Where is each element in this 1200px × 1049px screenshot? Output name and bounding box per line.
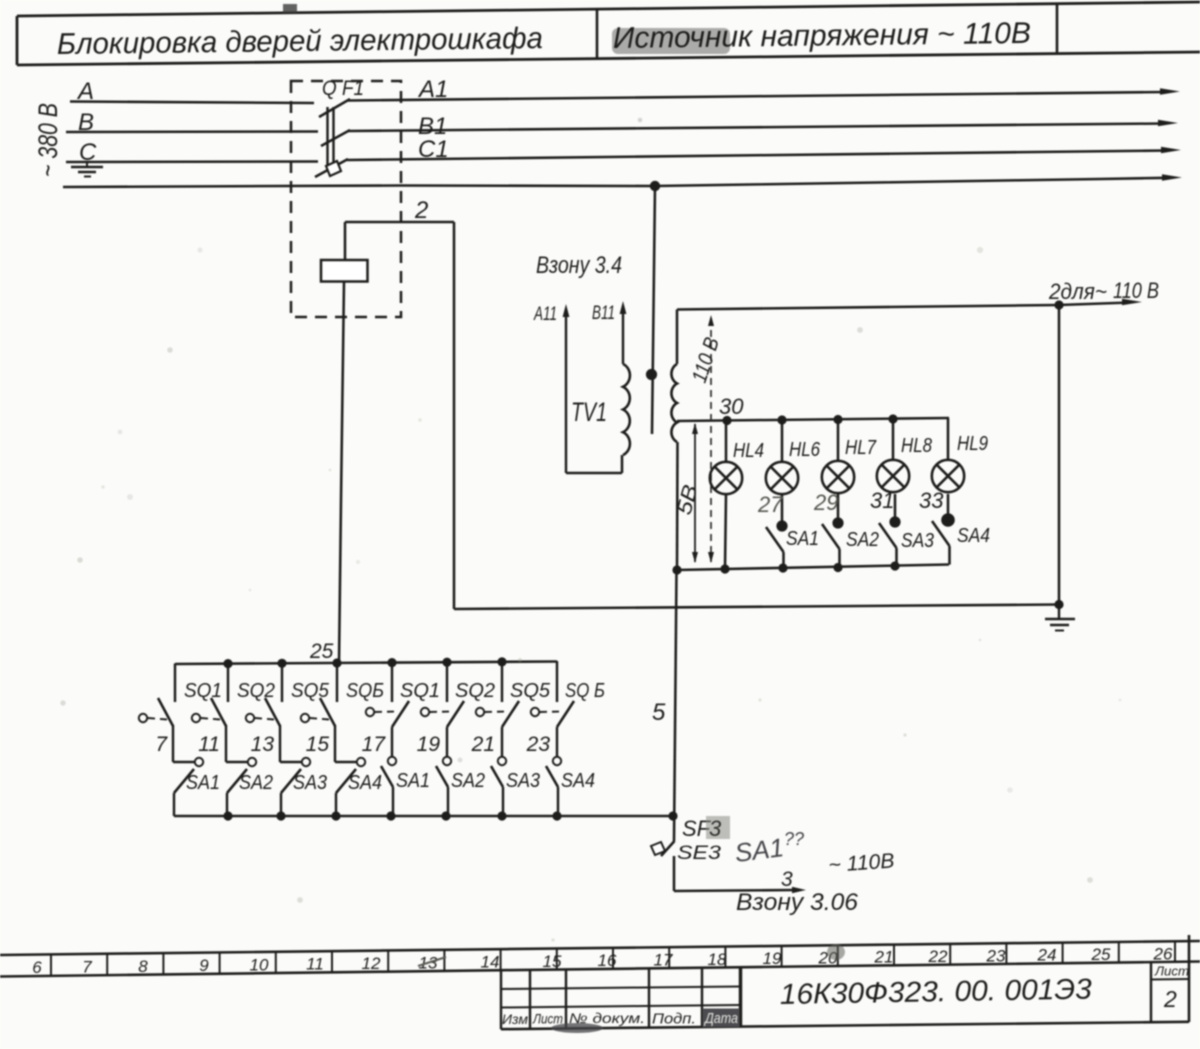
phase line A (left of QF1) xyxy=(70,102,314,104)
svg-text:Дата: Дата xyxy=(703,1010,738,1027)
smudge under rev row xyxy=(551,1023,603,1033)
node dot 29 xyxy=(832,517,843,528)
door switch SA3 pivot circle xyxy=(498,757,506,765)
TV1 secondary winding xyxy=(671,364,677,442)
limit switch SQ1 blade xyxy=(158,698,173,726)
phase line C1 (right of QF1) xyxy=(347,151,1167,161)
svg-text:Лист: Лист xyxy=(532,1011,563,1027)
svg-text:SA1: SA1 xyxy=(786,528,819,550)
correction smudge over Источник xyxy=(612,28,730,54)
door switch SA2 lower wire xyxy=(226,793,228,816)
svg-text:SA1: SA1 xyxy=(733,832,785,868)
svg-text:A1: A1 xyxy=(417,76,448,103)
limit switch SQ5 actuator dashes xyxy=(485,711,508,714)
limit switch SQ2 actuator dashes xyxy=(201,718,220,720)
wire 2 top horizontal to TV1 secondary xyxy=(677,305,1059,310)
door switch SA4 blade xyxy=(546,766,558,787)
svg-text:23: 23 xyxy=(986,946,1006,965)
node dot top bus x=502 xyxy=(497,657,506,666)
svg-text:SA2: SA2 xyxy=(451,770,485,792)
door switch SA1 pivot circle xyxy=(388,757,396,765)
node dot on N line at x=655 xyxy=(650,181,660,191)
svg-text:26: 26 xyxy=(1153,944,1173,963)
limit switch SQБ actuator dashes xyxy=(310,718,329,720)
node dot 33 xyxy=(941,513,955,527)
door switch SA2 pivot circle xyxy=(248,758,256,766)
arrow C1 line xyxy=(1161,147,1181,153)
wire top stem HL6 xyxy=(781,420,784,462)
dimension arrow 5В xyxy=(694,424,696,562)
switch SA4 (lamp circuit) blade xyxy=(932,521,950,546)
svg-text:11: 11 xyxy=(198,733,220,756)
svg-text:SA3: SA3 xyxy=(293,772,327,794)
Лист cell rule xyxy=(1151,978,1189,981)
svg-text:Подп.: Подп. xyxy=(652,1011,696,1028)
wire top stem HL7 xyxy=(837,420,840,462)
lamp HL9 xyxy=(932,460,964,492)
revision table verticals xyxy=(500,970,502,1029)
limit switch SQ1 actuator dashes xyxy=(148,718,167,720)
svg-text:30: 30 xyxy=(719,394,744,419)
wire 5 below SE3 xyxy=(673,856,676,891)
limit switch SQ2 actuator dashes xyxy=(430,711,453,714)
svg-text:Взону 3.06: Взону 3.06 xyxy=(736,889,859,916)
svg-text:7: 7 xyxy=(82,957,92,976)
node dot bottom bus x=228 xyxy=(223,811,232,820)
wire top stem HL8 xyxy=(892,419,895,460)
svg-text:21: 21 xyxy=(874,948,894,967)
wire SA4 lower stem xyxy=(948,546,951,565)
sheet frame right edge xyxy=(1188,935,1191,1022)
limit switch SQ5 actuator dashes xyxy=(255,718,274,720)
node dot top bus x=392 xyxy=(387,658,396,667)
neutral line N (full width) xyxy=(63,178,1168,187)
door switch SA4 pivot circle xyxy=(357,758,365,766)
svg-text:SA1: SA1 xyxy=(186,772,220,794)
emergency switch SE3 flag xyxy=(651,842,665,855)
stamp cell verticals xyxy=(740,967,742,1027)
limit switch SQ2 actuator circle xyxy=(421,708,429,716)
phase line A1 (right of QF1) xyxy=(348,92,1166,101)
door switch SA3 jog xyxy=(280,761,302,763)
wire node 19 segment xyxy=(446,727,448,757)
node dot 31 xyxy=(889,516,900,527)
door switch SA1 blade xyxy=(381,766,393,787)
breaker QF1 mechanical tie bar xyxy=(326,107,328,167)
svg-text:Лист: Лист xyxy=(1154,964,1189,979)
svg-text:25: 25 xyxy=(309,640,334,663)
wire top stem HL4 xyxy=(725,421,728,463)
wire SA2 upper stem xyxy=(837,494,840,523)
TV1 primary winding xyxy=(623,364,630,455)
svg-text:33: 33 xyxy=(919,488,944,513)
svg-text:??: ?? xyxy=(784,829,804,849)
svg-text:12: 12 xyxy=(362,954,381,973)
node dot bottom bus x=446 xyxy=(441,811,450,820)
stray mark top edge xyxy=(283,4,297,13)
svg-text:Q F1: Q F1 xyxy=(322,77,364,100)
wire 2 exit arrow to 110V load xyxy=(1059,303,1130,306)
wire A11 with up arrow xyxy=(565,316,567,473)
svg-text:31: 31 xyxy=(870,488,894,513)
door switch SA3 pivot circle xyxy=(302,758,310,766)
switch SA3 (lamp circuit) blade xyxy=(879,523,897,548)
svg-text:22: 22 xyxy=(928,947,948,966)
svg-text:19: 19 xyxy=(763,949,782,968)
limit switch SQ5 blade xyxy=(265,698,280,726)
limit switch SQ Б top stub xyxy=(556,661,558,702)
door switch SA4 lower wire xyxy=(557,787,559,816)
limit switch SQ1 actuator circle xyxy=(139,714,147,722)
svg-text:Взону 3.4: Взону 3.4 xyxy=(536,252,622,279)
limit switch SQ1 top stub xyxy=(391,662,393,702)
svg-text:SA4: SA4 xyxy=(957,525,990,547)
door switch SA2 pivot circle xyxy=(443,757,451,765)
svg-text:Изм: Изм xyxy=(502,1011,528,1027)
node dot bottom/SA2 xyxy=(833,563,842,572)
interlock top bus (node 25) xyxy=(175,662,557,665)
sheet title bar frame xyxy=(17,2,1200,16)
phase line B1 (right of QF1) xyxy=(348,124,1164,132)
emergency switch SE3 blade xyxy=(661,841,675,856)
highlight box Дата xyxy=(703,1009,740,1028)
arrow N line xyxy=(1162,174,1182,180)
svg-text:15: 15 xyxy=(543,952,562,971)
svg-text:C: C xyxy=(79,139,97,166)
svg-text:27: 27 xyxy=(757,492,783,517)
switch SA1 (lamp circuit) blade xyxy=(766,527,784,552)
svg-text:A: A xyxy=(76,78,94,105)
door switch SA1 lower wire xyxy=(392,787,394,816)
wire: coil bottom down to interlock bus 25 xyxy=(339,282,344,664)
limit switch SQБ blade xyxy=(320,698,335,726)
node dot bottom bus x=281 xyxy=(276,811,285,820)
TV1 primary bottom connection xyxy=(566,472,622,475)
wire node 15 segment xyxy=(334,725,336,762)
wire 2 bottom horizontal run xyxy=(454,605,1059,610)
node dot top bus x=228 xyxy=(223,659,232,668)
dashed enclosure QF1 xyxy=(291,81,401,317)
node dot top bus x=337 xyxy=(332,658,341,667)
door switch SA4 pivot circle xyxy=(553,757,561,765)
svg-text:15: 15 xyxy=(306,733,330,756)
wire node 17 segment xyxy=(391,727,393,757)
limit switch SQ2 top stub xyxy=(227,663,229,702)
node dot at wire2 top right corner xyxy=(1054,300,1063,309)
node dot bottom/SA1 xyxy=(778,563,787,572)
limit switch SQ2 actuator circle xyxy=(192,714,200,722)
svg-text:2для~: 2для~ xyxy=(1048,279,1107,304)
svg-text:29: 29 xyxy=(813,490,838,515)
svg-text:SA1: SA1 xyxy=(396,770,430,792)
wire: coil top to node 2 run xyxy=(345,221,454,224)
limit switch SQБ actuator circle xyxy=(301,714,309,722)
door switch SA4 lower wire xyxy=(335,793,337,816)
svg-text:3: 3 xyxy=(781,868,793,891)
title block bottom rule xyxy=(501,1022,1189,1029)
wire node 23 segment xyxy=(556,727,558,757)
bottom strip bottom rule xyxy=(0,962,1200,977)
svg-text:HL4: HL4 xyxy=(733,440,764,462)
svg-text:8: 8 xyxy=(138,957,148,976)
breaker QF1 tie bar handle (diamond) xyxy=(326,161,341,176)
node dot bottom bus / wire 5 xyxy=(668,811,677,820)
wire SA3 upper stem xyxy=(894,494,897,522)
ground symbol on line C xyxy=(86,162,88,167)
limit switch SQ Б blade xyxy=(557,701,574,727)
lamp group top bus (node 30) xyxy=(677,418,949,421)
svg-text:B11: B11 xyxy=(592,303,615,324)
limit switch SQ2 top stub xyxy=(446,662,448,702)
svg-text:18: 18 xyxy=(708,950,727,969)
svg-text:6: 6 xyxy=(32,958,42,977)
door switch SA2 blade xyxy=(227,769,247,793)
phase line C (left of QF1) xyxy=(66,160,318,163)
svg-text:HL9: HL9 xyxy=(957,433,988,455)
svg-text:11: 11 xyxy=(306,955,324,974)
door switch SA4 jog xyxy=(335,761,357,763)
TV1 secondary bottom lead xyxy=(676,442,679,570)
wire 2 right vertical run xyxy=(1058,305,1061,605)
limit switch SQ1 top stub xyxy=(174,664,176,703)
limit switch SQ1 blade xyxy=(392,701,409,727)
svg-text:SA2: SA2 xyxy=(846,529,879,551)
svg-text:SA2: SA2 xyxy=(239,772,273,794)
bottom strip cell dividers xyxy=(50,954,52,975)
node dot 30 bus/HL4 xyxy=(722,416,731,425)
ground symbol right side xyxy=(1058,604,1060,619)
svg-text:21: 21 xyxy=(471,733,495,756)
revision table horizontals xyxy=(501,987,740,990)
door switch SA2 lower wire xyxy=(447,787,449,816)
node dot top bus x=447 xyxy=(442,658,451,667)
breaker QF1 pole B blade xyxy=(321,130,350,146)
strike mark over 13 xyxy=(418,957,446,966)
svg-text:C1: C1 xyxy=(418,136,449,163)
svg-text:SQ5: SQ5 xyxy=(291,680,330,702)
svg-text:23: 23 xyxy=(526,733,551,756)
paper speckles (scan noise) xyxy=(118,430,123,435)
junction dot on that wire xyxy=(646,369,657,380)
bottom strip top rule xyxy=(0,941,1200,955)
svg-text:SQ1: SQ1 xyxy=(184,680,222,702)
door switch SA1 blade xyxy=(174,769,194,793)
svg-text:SA3: SA3 xyxy=(506,770,540,792)
node dot top bus x=282 xyxy=(277,659,286,668)
svg-text:110 В: 110 В xyxy=(1113,278,1159,303)
door switch SA2 blade xyxy=(436,766,448,787)
door switch SA3 lower wire xyxy=(502,787,504,816)
svg-text:HL7: HL7 xyxy=(845,437,877,459)
svg-text:SE3: SE3 xyxy=(677,843,722,864)
node dot bus/HL7 xyxy=(833,415,842,424)
door switch SA1 jog xyxy=(173,761,195,763)
limit switch SQ1 actuator dashes xyxy=(375,711,398,714)
svg-text:SQ Б: SQ Б xyxy=(565,680,605,702)
svg-text:17: 17 xyxy=(654,950,673,969)
limit switch SQ5 blade xyxy=(502,701,519,727)
coil of breaker (undervoltage release) xyxy=(321,260,368,282)
svg-text:14: 14 xyxy=(481,953,500,972)
door switch SA4 blade xyxy=(336,769,356,793)
wire 2 vertical run right side of coil xyxy=(453,222,456,609)
door switch SA3 blade xyxy=(491,766,503,787)
svg-text:9: 9 xyxy=(199,956,209,975)
wire from N line down between TV1 windings xyxy=(652,186,655,434)
limit switch SQБ top stub xyxy=(336,662,338,702)
wire SA1 upper stem xyxy=(781,494,784,526)
svg-text:TV1: TV1 xyxy=(571,397,607,427)
node dot 27 xyxy=(776,520,787,531)
door switch SA3 blade xyxy=(281,769,301,793)
door switch SA2 jog xyxy=(226,761,248,763)
svg-text:B: B xyxy=(78,109,94,136)
limit switch SQ2 blade xyxy=(211,698,226,726)
phase line B (left of QF1) xyxy=(66,130,318,133)
svg-text:SQБ: SQБ xyxy=(346,680,384,702)
lamp HL7 xyxy=(822,461,854,493)
wire node 13 segment xyxy=(279,725,281,762)
node dot bottom/SA3 xyxy=(890,561,899,570)
smudge over 20 xyxy=(827,944,845,960)
svg-text:~ 110В: ~ 110В xyxy=(828,849,895,877)
svg-text:HL8: HL8 xyxy=(901,435,932,457)
door switch SA1 lower wire xyxy=(173,793,175,816)
wire 5 vertical run xyxy=(674,570,677,841)
svg-text:Источник напряжения ~ 110В: Источник напряжения ~ 110В xyxy=(613,17,1031,55)
svg-text:19: 19 xyxy=(417,733,441,756)
dimension arrow 110 В (dashed) xyxy=(710,318,712,562)
limit switch SQ5 actuator circle xyxy=(246,714,254,722)
door switch SA3 lower wire xyxy=(280,793,282,816)
node dot bottom/HL4 xyxy=(720,564,729,573)
limit switch SQ5 actuator circle xyxy=(476,708,484,716)
svg-text:7: 7 xyxy=(155,733,168,756)
node dot bottom bus x=336 xyxy=(331,811,340,820)
svg-text:3: 3 xyxy=(709,816,722,841)
arrow A1 line xyxy=(1160,88,1180,94)
svg-text:2: 2 xyxy=(414,197,428,224)
lamp HL8 xyxy=(877,460,909,492)
wire node 21 segment xyxy=(501,727,503,757)
lamp HL6 xyxy=(766,462,798,494)
svg-text:16: 16 xyxy=(598,951,617,970)
wire B11 with up arrow xyxy=(622,313,624,364)
svg-text:24: 24 xyxy=(1037,946,1057,965)
breaker QF1 pole A blade xyxy=(319,99,350,117)
svg-text:10: 10 xyxy=(250,955,269,974)
svg-text:SA4: SA4 xyxy=(348,772,382,794)
interlock bottom bus xyxy=(174,815,673,818)
lamp HL4 xyxy=(710,462,742,494)
wire SA1 lower stem xyxy=(782,552,785,568)
node dot bottom bus x=502 xyxy=(497,811,506,820)
wire node 7 segment xyxy=(172,725,174,762)
wire SA3 lower stem xyxy=(895,548,898,566)
correction box over designator xyxy=(706,816,730,839)
svg-text:~ 380 В: ~ 380 В xyxy=(33,103,63,177)
node dot at ground corner xyxy=(1054,600,1063,609)
node dot bottom bus left corner xyxy=(672,565,681,574)
limit switch SQ5 top stub xyxy=(281,663,283,702)
node dot bottom bus x=391 xyxy=(386,811,395,820)
svg-text:A11: A11 xyxy=(533,304,557,325)
svg-text:13: 13 xyxy=(251,733,275,756)
wire node 11 segment xyxy=(225,725,227,762)
wire 3 horizontal to zone 3.06 xyxy=(674,890,795,891)
limit switch SQ5 top stub xyxy=(501,661,503,702)
lamp group bottom bus xyxy=(677,565,949,571)
svg-text:SA4: SA4 xyxy=(561,770,595,792)
svg-text:SQ2: SQ2 xyxy=(237,680,275,702)
svg-text:17: 17 xyxy=(362,733,387,756)
svg-text:25: 25 xyxy=(1091,945,1111,964)
breaker QF1 pole C blade xyxy=(315,159,348,177)
svg-text:SA3: SA3 xyxy=(901,530,934,552)
svg-text:16К30Ф323. 00. 001Э3: 16К30Ф323. 00. 001Э3 xyxy=(780,974,1093,1011)
svg-text:2: 2 xyxy=(1163,986,1177,1012)
svg-text:HL6: HL6 xyxy=(789,439,821,461)
svg-text:SQ1: SQ1 xyxy=(400,680,440,702)
limit switch SQ Б actuator dashes xyxy=(540,711,563,714)
TV1 secondary top lead xyxy=(676,310,679,365)
wire top stem HL9 xyxy=(947,418,950,460)
limit switch SQ Б actuator circle xyxy=(531,708,539,716)
arrow B1 line xyxy=(1158,120,1178,126)
door switch SA1 pivot circle xyxy=(195,758,203,766)
switch SA2 (lamp circuit) blade xyxy=(822,524,840,549)
svg-text:SQ2: SQ2 xyxy=(455,680,495,702)
limit switch SQ1 actuator circle xyxy=(366,708,374,716)
node dot bottom bus x=557 xyxy=(552,811,561,820)
node dot bus/HL6 xyxy=(777,415,786,424)
svg-text:Блокировка дверей электрошка: Блокировка дверей электрошкафа xyxy=(57,22,543,61)
limit switch SQ2 blade xyxy=(447,701,464,727)
svg-text:5: 5 xyxy=(652,699,666,726)
svg-text:SQ5: SQ5 xyxy=(510,680,551,702)
wire SA2 lower stem xyxy=(838,549,841,567)
wire SA4 upper stem xyxy=(947,494,950,520)
node dot bus/HL8 xyxy=(888,414,897,423)
wire HL4 bottom stem to bus xyxy=(725,494,726,569)
